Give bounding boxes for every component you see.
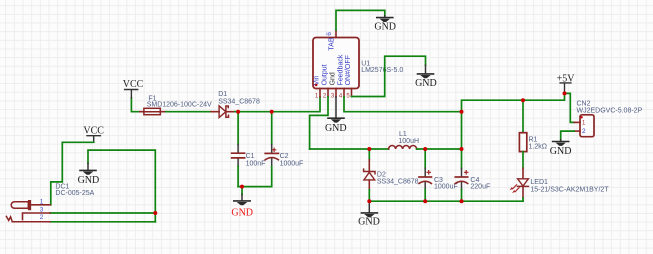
svg-text:GND: GND [358, 216, 380, 227]
wire CN2 pin2 to GND [561, 131, 575, 140]
svg-text:LED1: LED1 [530, 179, 548, 186]
ground GND (input, left) [78, 163, 100, 186]
svg-text:3: 3 [40, 206, 44, 213]
fuse F1 [140, 95, 212, 114]
ground GND (U1 pin 3) [325, 97, 347, 134]
junction dot C2 tap [270, 110, 274, 114]
wire VCC2 to DC1 pin1 [51, 142, 94, 205]
svg-text:TAB: TAB [329, 37, 336, 50]
svg-text:3: 3 [331, 93, 335, 99]
wire VCC1 to F1 [131, 98, 139, 112]
wire U1 pin5 to GND [352, 56, 426, 96]
U1 pin 1 Vin [314, 75, 321, 99]
svg-text:ON#/OFF: ON#/OFF [345, 55, 352, 85]
svg-text:GND: GND [374, 22, 396, 33]
wire +5V to CN2 pin1 [565, 93, 575, 122]
svg-text:1000uF: 1000uF [434, 184, 458, 191]
wire L1 to riser [417, 148, 462, 150]
junction dot feedback [460, 110, 464, 114]
ground GND (red label, input side) [231, 187, 253, 219]
diode D2 [364, 149, 419, 201]
wire C1-C2 ground rail [238, 186, 272, 188]
svg-text:2: 2 [40, 214, 44, 221]
svg-text:SMD1206-100C-24V: SMD1206-100C-24V [147, 102, 212, 109]
diode D1 [211, 91, 260, 118]
svg-text:2: 2 [582, 128, 586, 135]
svg-text:Gnd: Gnd [330, 72, 337, 85]
junction dot D1/C1 [236, 110, 240, 114]
connector CN2 [574, 100, 642, 136]
connector DC1 DC-005-25A [6, 184, 94, 222]
svg-text:6: 6 [326, 32, 333, 36]
svg-text:GND: GND [550, 146, 572, 157]
U1 pin 2 Output [322, 64, 329, 99]
wire F1 to D1 [166, 111, 211, 113]
junction dot +5V [563, 91, 567, 95]
wire TAB to GND [336, 10, 385, 30]
svg-text:D1: D1 [218, 91, 227, 98]
power flag +5V [557, 73, 576, 93]
svg-text:1000uF: 1000uF [280, 160, 304, 167]
svg-text:VCC: VCC [123, 79, 144, 90]
svg-text:220uF: 220uF [470, 184, 490, 191]
svg-text:1.2kΩ: 1.2kΩ [529, 143, 547, 150]
ground GND (right of U1) [415, 65, 437, 89]
svg-text:4: 4 [339, 93, 343, 99]
ground GND (output rail) [358, 201, 380, 227]
wire DC1 pin2 [50, 221, 155, 223]
ground GND (top, TAB) [374, 16, 396, 33]
svg-text:WJ2EDGVC-5.08-2P: WJ2EDGVC-5.08-2P [577, 108, 643, 115]
wire DC1 pin3 [50, 212, 155, 214]
wire bottom output ground rail [369, 200, 523, 202]
inductor L1 [389, 131, 419, 149]
wire output rail to L1 [310, 148, 389, 150]
power flag VCC (top) [123, 79, 144, 98]
svg-text:SS34_C8678: SS34_C8678 [218, 98, 260, 105]
svg-text:LM2576S-5.0: LM2576S-5.0 [361, 67, 403, 74]
junction dot D2 tap [367, 147, 371, 151]
wire riser to +5V rail [462, 93, 565, 149]
svg-text:100uH: 100uH [398, 138, 419, 145]
svg-text:C1: C1 [246, 153, 255, 160]
capacitor C4 (polarized) [455, 149, 490, 201]
U1 pin 5 ON#/OFF [345, 55, 352, 99]
svg-text:100nF: 100nF [246, 160, 266, 167]
svg-text:DC-005-25A: DC-005-25A [55, 190, 94, 197]
svg-text:SS34_C8678: SS34_C8678 [377, 178, 419, 185]
junction dot DC1 pin3 [153, 211, 157, 215]
svg-text:GND: GND [78, 175, 100, 186]
capacitor C1 [232, 112, 266, 187]
capacitor C3 (polarized) [419, 149, 458, 201]
svg-text:GND: GND [231, 207, 253, 218]
U1 pin 4 Feedback [338, 54, 345, 99]
wire GND2 branch [88, 150, 155, 222]
resistor R1 [519, 100, 547, 168]
U1 pin 3 Gnd [330, 72, 337, 99]
wire U1 pin2 detour to output rail [310, 97, 328, 149]
svg-text:5: 5 [346, 93, 350, 99]
svg-text:1: 1 [40, 198, 44, 205]
junction dot rail/D2/GND [367, 199, 371, 203]
svg-text:CN2: CN2 [577, 100, 591, 107]
svg-text:Feedback: Feedback [338, 54, 345, 85]
svg-text:VCC: VCC [83, 126, 104, 137]
U1 pin 6 TAB [326, 30, 336, 50]
svg-text:GND: GND [325, 123, 347, 134]
junction dot R1 tap [521, 98, 525, 102]
junction dot C4 bottom [460, 199, 464, 203]
svg-text:GND: GND [415, 78, 437, 89]
svg-text:R1: R1 [529, 136, 538, 143]
wire D1 to U1 pin1 [235, 97, 320, 112]
junction dot C3 bottom [423, 199, 427, 203]
capacitor C2 (polarized) [265, 112, 303, 187]
svg-text:Vin: Vin [314, 75, 321, 85]
wire U1 pin4 feedback [344, 97, 462, 112]
junction dot C3 tap [423, 147, 427, 151]
op-amp U1 LM2576S-5.0 body [313, 38, 403, 89]
junction dot C4/riser tap [460, 147, 464, 151]
ground GND (CN2) [550, 140, 572, 157]
svg-text:C2: C2 [280, 153, 289, 160]
junction dot GND tap [240, 185, 244, 189]
svg-text:Output: Output [322, 64, 329, 85]
power flag VCC (lower left) [83, 126, 104, 143]
svg-text:2: 2 [323, 93, 327, 99]
svg-text:15-21/S3C-AK2M1BY/2T: 15-21/S3C-AK2M1BY/2T [530, 187, 609, 194]
svg-text:1: 1 [315, 93, 319, 99]
LED LED1 [510, 168, 610, 201]
